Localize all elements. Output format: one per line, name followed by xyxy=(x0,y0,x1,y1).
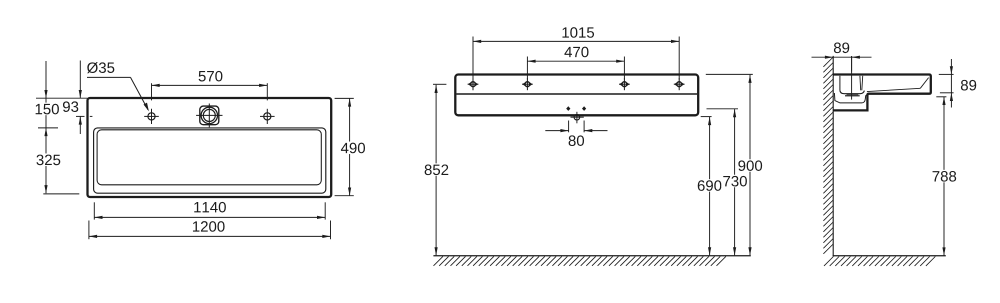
dimension 80 extension lines xyxy=(568,121,570,133)
wall hatching xyxy=(823,57,833,67)
basin floor and drain slot xyxy=(840,90,864,93)
dimension 788 xyxy=(943,97,945,256)
dimension 89 top xyxy=(812,56,872,58)
fixing point right diamond xyxy=(582,106,586,111)
dimension 1015 extension lines xyxy=(472,37,474,80)
floor line front view xyxy=(433,255,750,257)
dimension 1200 xyxy=(89,235,331,237)
side profile outline xyxy=(833,75,931,111)
dimension 470 extension lines xyxy=(526,57,528,80)
dimension 490 extension ticks xyxy=(335,97,354,99)
dimension 690 xyxy=(709,117,711,256)
floor line side view xyxy=(833,255,946,257)
drain front mark xyxy=(574,114,580,120)
mounting hole 3 xyxy=(622,82,627,87)
faucet hole right xyxy=(264,113,271,120)
fixing point left diamond xyxy=(566,106,570,111)
dimension 325 xyxy=(45,128,47,193)
extension line faucet axis xyxy=(76,115,85,117)
dimension 690 tick xyxy=(701,116,712,118)
dimension 1140 extension lines xyxy=(93,202,95,219)
side ticks right edge xyxy=(939,73,954,75)
drain inner circle xyxy=(203,109,215,121)
mounting hole 4 xyxy=(677,82,682,87)
dimension 80 xyxy=(545,130,568,132)
mounting hole 2 xyxy=(525,82,530,87)
dimension 570 extension lines xyxy=(151,83,153,100)
label Ø35 with leader xyxy=(87,62,114,73)
trap moulding xyxy=(834,93,867,103)
washbasin plan view outer outline 1200x490 xyxy=(88,98,332,197)
rim underside slant xyxy=(867,88,920,91)
drain (plan) square xyxy=(200,106,219,125)
dimension 900 tick xyxy=(706,73,753,75)
dimension 730 tick xyxy=(707,108,739,110)
extension line top edge left xyxy=(36,97,87,99)
dimension 570 xyxy=(152,84,268,86)
dimension 89 right xyxy=(950,59,952,74)
dimension 490 xyxy=(349,98,351,195)
extension line basin rear edge xyxy=(38,127,58,129)
dimension 852 xyxy=(435,85,437,256)
floor hatching side view xyxy=(824,257,833,266)
dimension 1015 xyxy=(473,40,679,42)
extension line basin front edge xyxy=(43,193,79,195)
dimension 1140 xyxy=(94,216,325,218)
basin rim inner contour xyxy=(94,128,326,193)
overflow rib xyxy=(859,76,862,91)
basin floor contour xyxy=(97,130,321,185)
front view slab outline xyxy=(455,75,698,116)
dimension 900 xyxy=(749,75,751,256)
faucet hole left (Ø35) xyxy=(148,113,155,120)
drain outer circle xyxy=(201,107,217,123)
drain crosshair xyxy=(196,114,222,116)
dimension 93 xyxy=(79,61,81,99)
wall line xyxy=(832,56,834,256)
floor hatching front view xyxy=(434,256,443,265)
dimension 730 xyxy=(734,109,736,255)
dimension 1200 extension lines xyxy=(88,221,90,240)
mounting hole 1 xyxy=(471,82,476,87)
front view rim line xyxy=(457,93,698,95)
dimension 852 tick xyxy=(433,83,446,85)
basin rear inner wall xyxy=(839,76,841,91)
dimension 470 xyxy=(527,60,624,62)
dimension 150 xyxy=(45,61,47,98)
faucet axis line xyxy=(851,56,853,100)
